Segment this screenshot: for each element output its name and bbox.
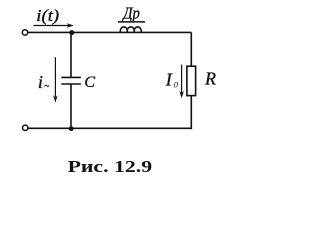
- wire right vertical lower: [190, 96, 192, 130]
- terminal bottom-left: [23, 125, 28, 130]
- svg-text:0: 0: [174, 80, 179, 90]
- inductor Др: [120, 27, 141, 32]
- current arrow i(t): [33, 23, 74, 27]
- svg-text:Рис. 12.9: Рис. 12.9: [68, 157, 153, 176]
- svg-text:i: i: [38, 72, 43, 92]
- terminal top-left: [22, 30, 27, 35]
- resistor R: [187, 66, 196, 95]
- svg-text:Др: Др: [121, 3, 139, 22]
- wire bottom horizontal: [28, 127, 192, 129]
- label i~ subscript tilde: [45, 85, 50, 86]
- node top junction: [69, 30, 74, 35]
- svg-text:i(t): i(t): [36, 6, 59, 25]
- svg-text:R: R: [204, 69, 216, 89]
- wire top horizontal: [28, 31, 191, 33]
- svg-text:I: I: [165, 69, 173, 89]
- wire capacitor branch lower: [70, 84, 72, 128]
- underline of Др: [118, 21, 145, 23]
- capacitor C: [61, 77, 81, 84]
- current arrow I0: [179, 65, 184, 99]
- wire capacitor branch upper: [70, 32, 72, 77]
- node bottom junction: [69, 126, 74, 131]
- wire right vertical upper: [190, 32, 192, 66]
- svg-text:C: C: [84, 74, 95, 91]
- current arrow i~: [53, 57, 58, 102]
